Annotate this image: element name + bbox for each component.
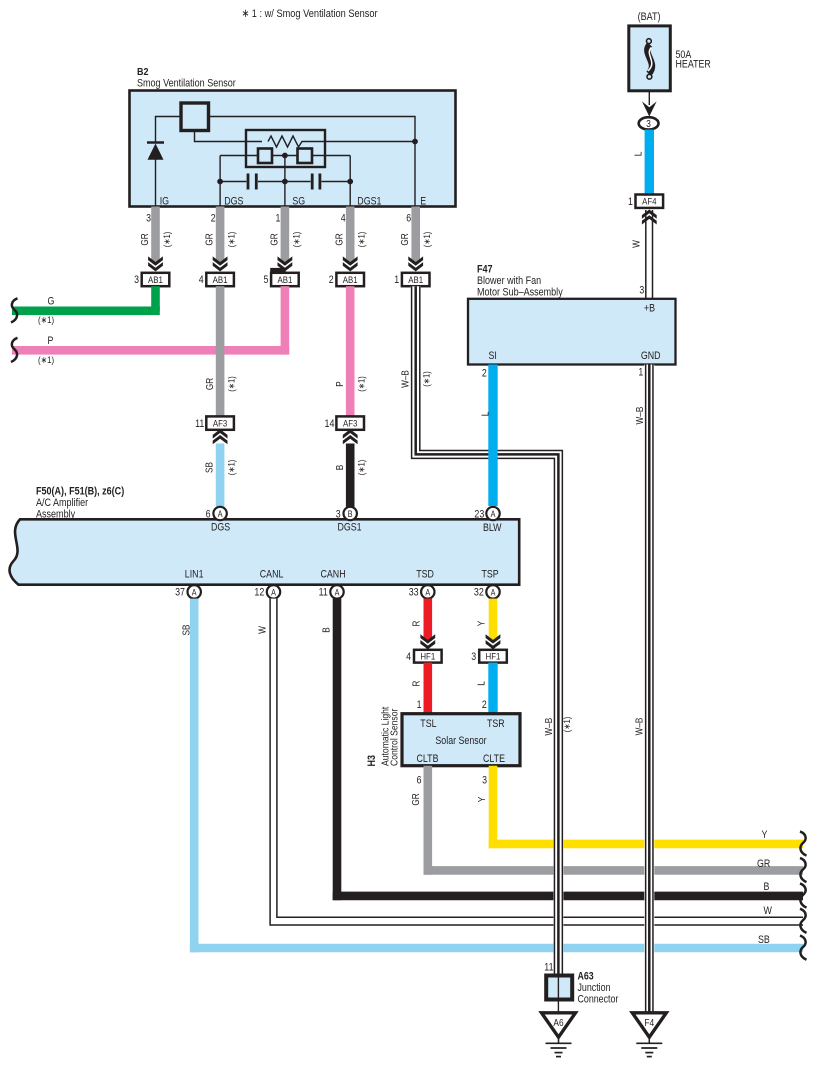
svg-text:AB1: AB1 <box>343 275 358 286</box>
svg-text:W–B: W–B <box>634 717 645 735</box>
svg-text:(∗1): (∗1) <box>38 315 54 326</box>
amp pin 32 A (TSP) <box>474 585 500 599</box>
svg-text:(∗1): (∗1) <box>162 232 172 248</box>
diode D (IG leg) <box>147 143 164 160</box>
wire B AF3 to amp DGS1 <box>335 444 367 508</box>
svg-text:Y: Y <box>762 829 768 841</box>
wire fuse to node 3 <box>648 91 650 105</box>
svg-text:(∗1): (∗1) <box>38 355 54 366</box>
svg-text:L: L <box>477 681 488 686</box>
svg-text:CLTE: CLTE <box>483 753 505 765</box>
wire GR stub DGS pin2 <box>205 207 237 263</box>
wire DGS1 column <box>349 156 351 207</box>
svg-text:GR: GR <box>411 793 422 805</box>
svg-text:3: 3 <box>471 651 476 663</box>
svg-text:L: L <box>633 151 644 156</box>
svg-text:33: 33 <box>409 587 419 599</box>
svg-text:(∗1): (∗1) <box>291 232 301 248</box>
component H3 Solar Sensor <box>366 707 520 767</box>
svg-text:12: 12 <box>254 587 264 599</box>
wire GR stub IG pin3 <box>140 207 172 263</box>
contact square right <box>298 149 313 164</box>
svg-text:DGS: DGS <box>224 196 243 208</box>
svg-text:1: 1 <box>276 213 281 225</box>
contact square left <box>258 149 272 164</box>
wire GR DGS to AF3 <box>205 286 237 416</box>
svg-text:W: W <box>764 905 773 917</box>
component A/C Amplifier Assembly F50(A) F51(B) z6(C) <box>10 486 520 585</box>
svg-text:DGS1: DGS1 <box>338 522 362 534</box>
svg-text:AF3: AF3 <box>213 419 227 430</box>
svg-text:Smog Ventilation Sensor: Smog Ventilation Sensor <box>137 78 236 90</box>
svg-text:W–B: W–B <box>635 406 646 424</box>
wire W-B pair from 1 AB1 to A63 <box>401 286 573 973</box>
svg-text:B: B <box>321 627 332 633</box>
squiggle B right end <box>800 883 807 907</box>
wire GR stub SG pin1 <box>269 207 301 263</box>
svg-text:CANL: CANL <box>260 569 284 581</box>
arrow into node 3 <box>642 102 657 117</box>
svg-text:2: 2 <box>482 368 487 380</box>
svg-text:A: A <box>271 587 276 597</box>
svg-text:HEATER: HEATER <box>676 59 711 71</box>
squiggle Y right end <box>800 831 807 855</box>
svg-text:R: R <box>411 681 422 687</box>
wire square to resistor row <box>195 131 263 142</box>
amp pin 37 A (LIN1) <box>175 585 201 599</box>
svg-text:3: 3 <box>646 119 651 130</box>
svg-text:GR: GR <box>205 378 216 390</box>
svg-text:11: 11 <box>544 961 553 973</box>
wire contact row <box>220 155 350 157</box>
amp bottom pin labels <box>185 569 499 581</box>
svg-text:A: A <box>192 587 197 597</box>
svg-text:R: R <box>411 621 422 627</box>
svg-text:W: W <box>632 240 643 248</box>
amp pin 23 A (BLW) <box>474 507 502 534</box>
fuse 50A HEATER <box>629 11 711 91</box>
svg-text:2: 2 <box>211 213 216 225</box>
svg-text:W: W <box>257 626 268 634</box>
connector 4 HF1 <box>406 650 442 663</box>
svg-text:4: 4 <box>341 213 346 225</box>
svg-text:37: 37 <box>175 587 185 599</box>
svg-text:(∗1): (∗1) <box>357 232 367 248</box>
svg-text:H3: H3 <box>366 755 378 767</box>
svg-text:SB: SB <box>181 624 192 635</box>
svg-text:3: 3 <box>639 284 644 296</box>
svg-text:F50(A), F51(B), z6(C): F50(A), F51(B), z6(C) <box>36 486 124 498</box>
svg-text:(∗1): (∗1) <box>357 376 367 392</box>
svg-text:3: 3 <box>134 274 139 286</box>
svg-text:BLW: BLW <box>483 522 502 534</box>
svg-text:P: P <box>335 381 346 387</box>
svg-text:Motor Sub–Assembly: Motor Sub–Assembly <box>477 287 563 299</box>
connector 14 AF3 <box>325 416 365 430</box>
svg-text:SI: SI <box>489 350 497 362</box>
svg-text:Solar Sensor: Solar Sensor <box>435 735 487 747</box>
svg-text:GR: GR <box>140 233 151 245</box>
svg-text:Control Sensor: Control Sensor <box>389 708 401 766</box>
svg-text:+B: +B <box>644 303 655 315</box>
wire SG column <box>284 156 286 207</box>
svg-text:A: A <box>491 509 496 519</box>
svg-text:F47: F47 <box>477 264 493 276</box>
svg-text:SG: SG <box>292 196 305 208</box>
svg-text:B: B <box>335 464 346 470</box>
wire L fuse to AF4 <box>633 130 654 195</box>
svg-text:F4: F4 <box>644 1018 654 1029</box>
svg-text:TSP: TSP <box>482 569 499 581</box>
wire square to IG and E columns <box>156 117 416 207</box>
svg-text:E: E <box>420 196 426 208</box>
connector 2 AB1 <box>329 273 364 286</box>
wire Y H3 CLTE to right edge <box>477 766 803 848</box>
svg-text:2: 2 <box>329 274 334 286</box>
svg-text:W–B: W–B <box>544 718 555 736</box>
svg-text:A6: A6 <box>553 1018 563 1029</box>
svg-text:GR: GR <box>205 233 216 245</box>
svg-text:P: P <box>48 335 54 347</box>
svg-text:A: A <box>335 587 340 597</box>
squiggle W right end <box>800 909 807 933</box>
squiggle GR right end <box>800 858 807 882</box>
svg-text:AB1: AB1 <box>408 275 423 286</box>
svg-text:∗ 1 : w/ Smog Ventilation Sens: ∗ 1 : w/ Smog Ventilation Sensor <box>242 8 378 20</box>
svg-text:(∗1): (∗1) <box>421 371 431 387</box>
svg-text:6: 6 <box>206 509 211 521</box>
svg-text:SB: SB <box>204 462 215 473</box>
wire G from left <box>12 286 160 326</box>
wire B CANH to right edge <box>321 599 803 901</box>
wire GR stub DGS1 pin4 <box>335 207 367 263</box>
connector 11 AF3 <box>195 416 234 430</box>
wire SB LIN1 to right edge <box>181 599 803 953</box>
svg-text:A: A <box>425 587 430 597</box>
connector 1 AB1 <box>394 273 429 286</box>
wire P DGS1 to AF3 <box>335 286 367 416</box>
svg-text:AF3: AF3 <box>343 419 357 430</box>
junction connector A63 <box>544 961 618 1013</box>
svg-text:(∗1): (∗1) <box>226 460 236 476</box>
svg-text:A: A <box>491 587 496 597</box>
svg-text:1: 1 <box>394 274 399 286</box>
wire L F47 SI to amp BLW <box>480 365 497 507</box>
svg-text:G: G <box>48 296 55 308</box>
component F47 Blower with Fan Motor Sub-Assembly <box>468 264 676 380</box>
connector 3 HF1 <box>471 650 507 663</box>
svg-text:4: 4 <box>199 274 204 286</box>
svg-text:2: 2 <box>482 699 487 711</box>
svg-text:DGS: DGS <box>211 522 230 534</box>
svg-text:CLTB: CLTB <box>417 753 439 765</box>
wire R HF1 to H3 TSL <box>411 663 432 714</box>
svg-text:5: 5 <box>264 274 269 286</box>
svg-text:(∗1): (∗1) <box>562 717 572 733</box>
wire GR stub E pin6 <box>400 207 432 263</box>
svg-text:A/C Amplifier: A/C Amplifier <box>36 497 88 509</box>
wire W-B pair from F47 GND to F4 ground <box>634 365 653 1013</box>
wire R TSD to HF1 <box>411 599 432 641</box>
component B2 Smog Ventilation Sensor <box>130 66 456 207</box>
amp pin 33 A (TSD) <box>409 585 435 599</box>
svg-text:23: 23 <box>474 509 484 521</box>
squiggle P left end <box>11 338 18 362</box>
capacitor C1 <box>220 174 285 190</box>
svg-text:(BAT): (BAT) <box>638 11 661 23</box>
wire W AF4 to F47 +B <box>632 210 654 299</box>
svg-text:(∗1): (∗1) <box>227 376 237 392</box>
connector 3 AB1 <box>134 273 169 286</box>
svg-text:1: 1 <box>417 699 422 711</box>
amp pin 11 A (CANH) <box>319 585 344 599</box>
svg-text:11: 11 <box>195 418 204 430</box>
svg-text:W–B: W–B <box>401 370 412 388</box>
svg-text:TSL: TSL <box>420 718 436 730</box>
svg-text:6: 6 <box>417 775 422 787</box>
squiggle G left end <box>11 298 18 322</box>
svg-text:(∗1): (∗1) <box>357 460 367 476</box>
B2 pin numbers 3 2 1 4 6 <box>146 213 411 225</box>
node 3 ellipse <box>639 117 659 130</box>
amp pin 12 A (CANL) <box>254 585 280 599</box>
svg-text:B: B <box>348 509 353 519</box>
wire Y TSP to HF1 <box>477 599 498 641</box>
ground F4 <box>632 1013 666 1057</box>
wire P from left <box>12 286 289 366</box>
svg-text:3: 3 <box>336 509 341 521</box>
svg-text:Connector: Connector <box>578 994 619 1006</box>
svg-text:(∗1): (∗1) <box>227 232 237 248</box>
connector 4 AB1 <box>199 273 234 286</box>
wire W CANL to right edge <box>257 599 803 926</box>
wire SB AF3 to amp DGS <box>204 444 236 508</box>
svg-text:AB1: AB1 <box>277 275 292 286</box>
wire GR H3 CLTB to right edge <box>411 766 803 875</box>
svg-text:32: 32 <box>474 587 484 599</box>
amp pin 3 B (DGS1) <box>336 507 362 534</box>
svg-text:DGS1: DGS1 <box>357 196 381 208</box>
svg-text:AB1: AB1 <box>213 275 228 286</box>
svg-text:TSD: TSD <box>416 569 434 581</box>
svg-text:11: 11 <box>319 587 328 599</box>
connector 1 AF4 <box>628 195 663 209</box>
junction dots <box>217 139 418 185</box>
B2 inner sensor box <box>246 130 325 167</box>
svg-text:HF1: HF1 <box>420 651 435 662</box>
B2 internal square component <box>181 103 209 131</box>
svg-text:(∗1): (∗1) <box>422 232 432 248</box>
svg-text:GR: GR <box>757 858 770 870</box>
svg-text:CANH: CANH <box>321 569 346 581</box>
svg-text:GND: GND <box>641 350 661 362</box>
svg-text:L: L <box>480 411 491 416</box>
svg-text:A63: A63 <box>578 971 594 983</box>
connector 5 AB1 <box>264 268 299 286</box>
svg-text:3: 3 <box>482 775 487 787</box>
svg-text:3: 3 <box>146 213 151 225</box>
capacitor C2 <box>285 174 350 190</box>
svg-text:B2: B2 <box>137 66 149 78</box>
svg-text:GR: GR <box>269 233 280 245</box>
svg-text:B: B <box>764 881 770 893</box>
resistor R <box>268 136 415 147</box>
svg-text:SB: SB <box>758 934 770 946</box>
ground A6 <box>542 1013 576 1057</box>
B2 pin labels <box>160 196 426 208</box>
svg-text:4: 4 <box>406 651 411 663</box>
wire DGS column <box>219 156 221 207</box>
svg-text:Y: Y <box>477 796 488 802</box>
svg-text:Y: Y <box>477 620 488 626</box>
svg-text:HF1: HF1 <box>486 651 501 662</box>
svg-text:A: A <box>218 509 223 519</box>
squiggle SB right end <box>800 936 807 960</box>
svg-text:Junction: Junction <box>578 982 611 994</box>
svg-text:1: 1 <box>628 196 633 208</box>
svg-text:Blower with Fan: Blower with Fan <box>477 275 541 287</box>
svg-text:GR: GR <box>335 233 346 245</box>
svg-text:TSR: TSR <box>487 718 505 730</box>
svg-text:AF4: AF4 <box>642 197 657 208</box>
svg-text:IG: IG <box>160 196 169 208</box>
svg-text:6: 6 <box>406 213 411 225</box>
svg-text:14: 14 <box>325 418 335 430</box>
amp pin 6 A (DGS) <box>206 507 231 534</box>
wire L HF1 to H3 TSR <box>477 663 498 714</box>
svg-text:GR: GR <box>400 233 411 245</box>
svg-text:1: 1 <box>638 367 643 379</box>
svg-text:LIN1: LIN1 <box>185 569 204 581</box>
svg-text:AB1: AB1 <box>148 275 163 286</box>
